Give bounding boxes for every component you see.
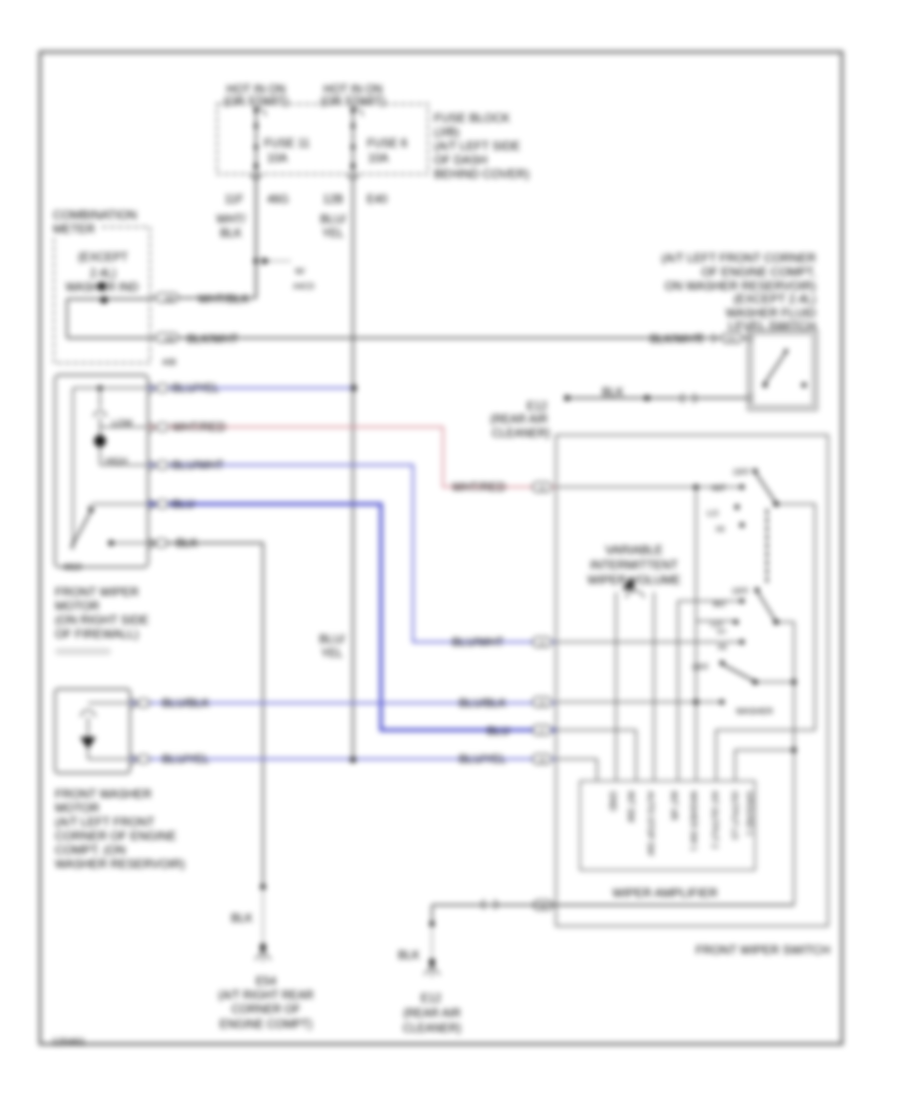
svg-text:ENGINE COMPT): ENGINE COMPT) — [220, 1019, 313, 1031]
svg-text:WIPER VOLUME: WIPER VOLUME — [587, 573, 680, 587]
svg-text:HI: HI — [718, 642, 727, 652]
svg-text:A4CD: A4CD — [293, 282, 315, 291]
svg-text:BLU/BLK: BLU/BLK — [162, 698, 210, 710]
svg-text:12B: 12B — [323, 194, 344, 206]
svg-text:FRONT WASHER: FRONT WASHER — [55, 787, 152, 801]
svg-text:BLK: BLK — [220, 228, 242, 240]
svg-text:11F: 11F — [225, 194, 244, 206]
svg-text:BEHIND COVER): BEHIND COVER) — [434, 167, 529, 181]
svg-text:(REAR AIR: (REAR AIR — [490, 414, 548, 426]
svg-text:24B: 24B — [164, 337, 175, 343]
svg-text:METER: METER — [53, 222, 95, 236]
svg-text:WASHER FLUID: WASHER FLUID — [726, 306, 817, 320]
svg-text:MOTOR: MOTOR — [55, 599, 100, 613]
svg-text:BLU: BLU — [487, 726, 509, 738]
svg-text:INTERMITTENT: INTERMITTENT — [590, 558, 679, 572]
svg-text:BLU: BLU — [172, 499, 194, 511]
svg-text:OF ENGINE COMPT,: OF ENGINE COMPT, — [701, 265, 816, 279]
svg-text:BLU/WHT: BLU/WHT — [452, 637, 504, 649]
svg-text:(REAR AIR: (REAR AIR — [403, 1008, 461, 1020]
svg-text:16: 16 — [539, 486, 546, 492]
svg-text:2.4L): 2.4L) — [90, 268, 116, 280]
svg-text:HOT IN ON: HOT IN ON — [323, 84, 382, 96]
svg-text:15: 15 — [539, 701, 546, 707]
svg-text:(J/B): (J/B) — [434, 125, 459, 139]
svg-text:WASHER RESERVOIR): WASHER RESERVOIR) — [55, 857, 185, 871]
svg-text:BLU/YEL: BLU/YEL — [162, 754, 210, 766]
svg-text:BLK: BLK — [176, 538, 198, 550]
svg-text:FUSE 6: FUSE 6 — [367, 138, 407, 150]
svg-text:BLK/WHT: BLK/WHT — [650, 334, 701, 346]
svg-text:FRONT WIPER: FRONT WIPER — [55, 585, 139, 599]
svg-text:BLK: BLK — [602, 387, 624, 399]
svg-text:ON WASHER RESERVOIR): ON WASHER RESERVOIR) — [665, 279, 816, 293]
svg-text:INT: INT — [717, 630, 727, 636]
svg-text:OF DASH: OF DASH — [434, 153, 487, 167]
svg-text:E54: E54 — [256, 976, 277, 988]
svg-text:CLEANER): CLEANER) — [492, 428, 550, 440]
svg-text:HIGH: HIGH — [105, 456, 128, 466]
svg-text:CLEANER): CLEANER) — [403, 1023, 461, 1035]
svg-text:HI: HI — [716, 524, 725, 534]
svg-text:46G: 46G — [267, 194, 289, 206]
svg-text:BLU/YEL: BLU/YEL — [459, 754, 507, 766]
svg-text:INT SW: INT SW — [626, 791, 636, 823]
svg-text:(A/T LEFT SIDE: (A/T LEFT SIDE — [434, 139, 520, 153]
svg-text:AUTO STOP SW: AUTO STOP SW — [646, 791, 656, 856]
svg-text:WHT/: WHT/ — [216, 214, 246, 226]
svg-text:17: 17 — [539, 729, 546, 735]
svg-text:18: 18 — [539, 758, 546, 764]
svg-text:WASHER: WASHER — [736, 706, 773, 716]
svg-text:(EXCEPT 2.4L): (EXCEPT 2.4L) — [734, 292, 816, 306]
svg-text:GROUND 1: GROUND 1 — [745, 791, 755, 836]
svg-text:OUTPUT LO: OUTPUT LO — [730, 791, 740, 840]
svg-text:MOTOR: MOTOR — [55, 801, 100, 815]
svg-text:GND: GND — [608, 791, 618, 812]
svg-text:(A/T LEFT FRONT: (A/T LEFT FRONT — [55, 815, 155, 829]
svg-text:10A: 10A — [368, 153, 389, 165]
svg-text:CORNER OF ENGINE: CORNER OF ENGINE — [55, 829, 176, 843]
svg-text:COMPT. (ON: COMPT. (ON — [55, 843, 126, 857]
svg-text:BLU/WHT: BLU/WHT — [172, 460, 224, 472]
svg-text:INT OUTPUT 2: INT OUTPUT 2 — [710, 791, 720, 849]
svg-text:120461: 120461 — [52, 1037, 86, 1048]
svg-text:HOT IN ON: HOT IN ON — [226, 84, 285, 96]
svg-text:M19: M19 — [64, 562, 82, 572]
svg-text:FUSE 11: FUSE 11 — [264, 138, 310, 150]
svg-text:FUSE BLOCK: FUSE BLOCK — [434, 111, 510, 125]
svg-text:BLK: BLK — [398, 950, 420, 962]
svg-text:W/: W/ — [295, 267, 306, 276]
svg-text:WHT/RED: WHT/RED — [172, 422, 226, 434]
svg-text:OFF: OFF — [733, 467, 750, 477]
svg-text:BLU/YEL: BLU/YEL — [172, 383, 220, 395]
svg-text:(A/T LEFT FRONT CORNER: (A/T LEFT FRONT CORNER — [661, 251, 816, 265]
svg-text:OFF: OFF — [692, 662, 709, 672]
svg-text:BLK/WHT: BLK/WHT — [187, 334, 238, 346]
svg-text:(ON RIGHT SIDE: (ON RIGHT SIDE — [55, 613, 149, 627]
svg-text:INT: INT — [712, 483, 726, 493]
svg-text:YEL: YEL — [321, 648, 343, 660]
svg-text:OF FIREWALL): OF FIREWALL) — [55, 627, 139, 641]
svg-text:(EXCEPT: (EXCEPT — [78, 252, 128, 264]
svg-text:VARIABLE: VARIABLE — [605, 543, 663, 557]
svg-text:E12: E12 — [421, 993, 441, 1005]
svg-text:INT VR: INT VR — [669, 791, 679, 821]
svg-text:10A: 10A — [267, 153, 288, 165]
svg-text:LEVEL SWITCH: LEVEL SWITCH — [728, 319, 816, 333]
svg-text:INT: INT — [713, 599, 727, 609]
svg-text:OFF: OFF — [732, 586, 749, 596]
svg-text:BLU/: BLU/ — [319, 634, 345, 646]
svg-text:LO: LO — [711, 619, 723, 629]
svg-text:COMBINATION: COMBINATION — [53, 208, 137, 222]
svg-text:13: 13 — [539, 641, 546, 647]
svg-text:WASHER SW 1: WASHER SW 1 — [689, 791, 699, 851]
svg-text:(A/T RIGHT REAR: (A/T RIGHT REAR — [218, 990, 313, 1002]
svg-text:BLU/: BLU/ — [320, 214, 346, 226]
svg-text:WIPER AMPLIFIER: WIPER AMPLIFIER — [612, 886, 718, 900]
svg-text:E40: E40 — [367, 194, 387, 206]
svg-text:CORNER OF: CORNER OF — [232, 1004, 301, 1016]
svg-text:YEL: YEL — [322, 228, 344, 240]
svg-text:40B: 40B — [162, 358, 176, 367]
svg-text:WHT/RED: WHT/RED — [452, 482, 506, 494]
svg-text:BLK: BLK — [231, 913, 253, 925]
svg-text:BLU/BLK: BLU/BLK — [459, 698, 507, 710]
svg-text:E41: E41 — [727, 337, 738, 343]
svg-text:FRONT WIPER SWITCH: FRONT WIPER SWITCH — [696, 943, 830, 957]
svg-text:LO: LO — [707, 508, 719, 518]
svg-text:WHT/BLK: WHT/BLK — [198, 294, 249, 306]
svg-text:E12: E12 — [527, 401, 547, 413]
svg-text:16B: 16B — [164, 297, 175, 303]
